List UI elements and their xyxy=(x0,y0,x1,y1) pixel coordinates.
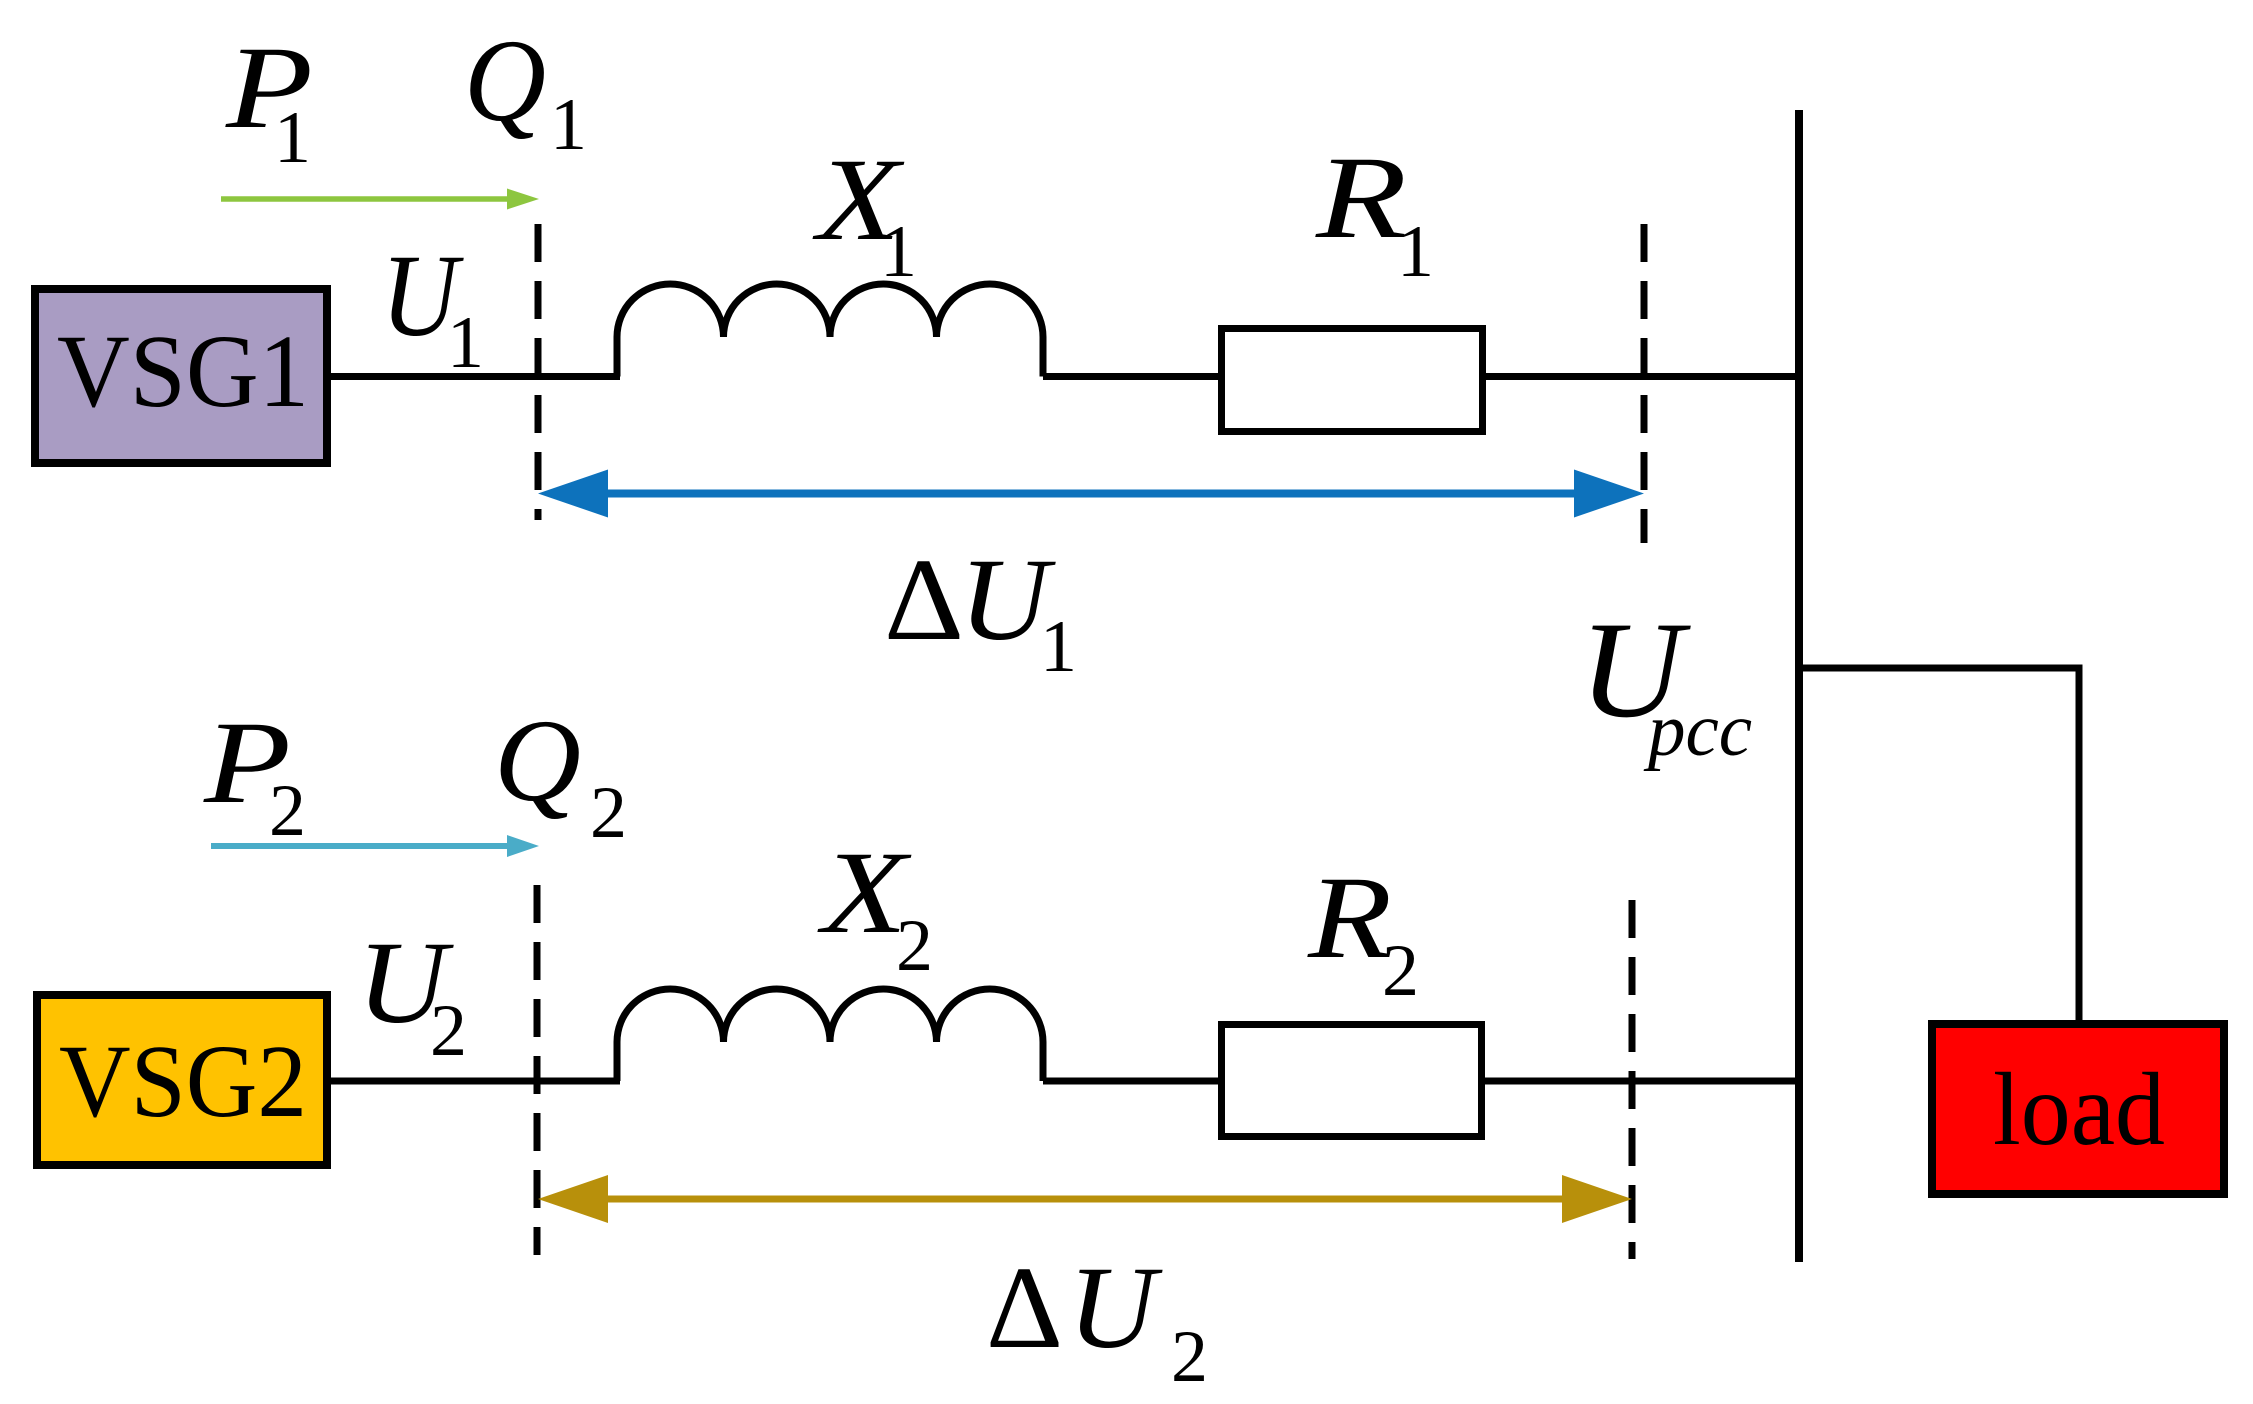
svg-text:2: 2 xyxy=(430,990,467,1072)
wire R1 to bus xyxy=(1482,373,1803,380)
arrow P1Q1 power flow (green) xyxy=(221,189,539,210)
label Upcc xyxy=(1579,593,1752,772)
label U2 xyxy=(357,917,467,1072)
svg-text:R: R xyxy=(1315,132,1407,263)
svg-text:2: 2 xyxy=(269,770,306,852)
arrow P2Q2 power flow (cyan) xyxy=(211,835,539,857)
wire VSG1 to X1 xyxy=(331,373,620,380)
label R2 xyxy=(1307,852,1419,1012)
wire X2 to R2 xyxy=(1043,1078,1222,1085)
resistor R2 xyxy=(1222,1025,1482,1137)
wire R2 to bus xyxy=(1481,1078,1803,1085)
label P2 xyxy=(203,697,306,852)
node dashed line at U2 xyxy=(534,885,541,1255)
svg-text:1: 1 xyxy=(1040,606,1077,688)
wire load drop (vertical) xyxy=(2076,665,2083,1025)
VSG2 source box xyxy=(37,995,327,1165)
svg-text:VSG1: VSG1 xyxy=(57,314,309,429)
svg-text:Q: Q xyxy=(464,15,546,146)
label X1 xyxy=(812,134,917,293)
label U1 xyxy=(381,230,484,384)
VSG1 source box xyxy=(35,289,327,463)
svg-text:load: load xyxy=(1993,1052,2165,1167)
svg-text:2: 2 xyxy=(590,772,627,854)
label P1 xyxy=(225,22,313,179)
svg-text:1: 1 xyxy=(274,97,311,179)
bus bar (PCC vertical line) xyxy=(1795,110,1803,1262)
svg-text:U: U xyxy=(1068,1242,1163,1373)
label X2 xyxy=(817,827,933,987)
node dashed line at Upcc (bottom) xyxy=(1629,900,1636,1259)
svg-text:Δ: Δ xyxy=(884,534,964,665)
arrow delta-U1 (blue double-headed) xyxy=(538,470,1644,518)
node dashed line at Upcc (top) xyxy=(1641,224,1648,543)
svg-text:1: 1 xyxy=(447,302,484,384)
label Q1 xyxy=(464,15,587,166)
svg-text:Q: Q xyxy=(494,695,581,826)
label delta-U1 xyxy=(884,534,1077,688)
svg-text:Δ: Δ xyxy=(986,1242,1063,1373)
node dashed line at U1 xyxy=(535,224,542,520)
inductor X1 xyxy=(617,284,1043,377)
svg-text:VSG2: VSG2 xyxy=(59,1024,307,1139)
svg-text:1: 1 xyxy=(550,84,587,166)
svg-text:pcc: pcc xyxy=(1643,689,1752,772)
resistor R1 xyxy=(1222,329,1483,432)
svg-text:R: R xyxy=(1307,852,1392,983)
inductor X2 xyxy=(617,989,1043,1081)
load box xyxy=(1932,1024,2224,1194)
svg-text:1: 1 xyxy=(1397,211,1434,293)
wire VSG2 to X2 xyxy=(331,1078,620,1085)
label delta-U2 xyxy=(986,1242,1208,1398)
wire bus to load (horizontal) xyxy=(1799,665,2079,672)
svg-text:2: 2 xyxy=(1382,930,1419,1012)
wire X1 to R1 xyxy=(1043,373,1222,380)
arrow delta-U2 (gold double-headed) xyxy=(538,1175,1632,1223)
label R1 xyxy=(1315,132,1434,293)
svg-text:2: 2 xyxy=(1171,1316,1208,1398)
svg-text:2: 2 xyxy=(896,905,933,987)
label Q2 xyxy=(494,695,627,854)
